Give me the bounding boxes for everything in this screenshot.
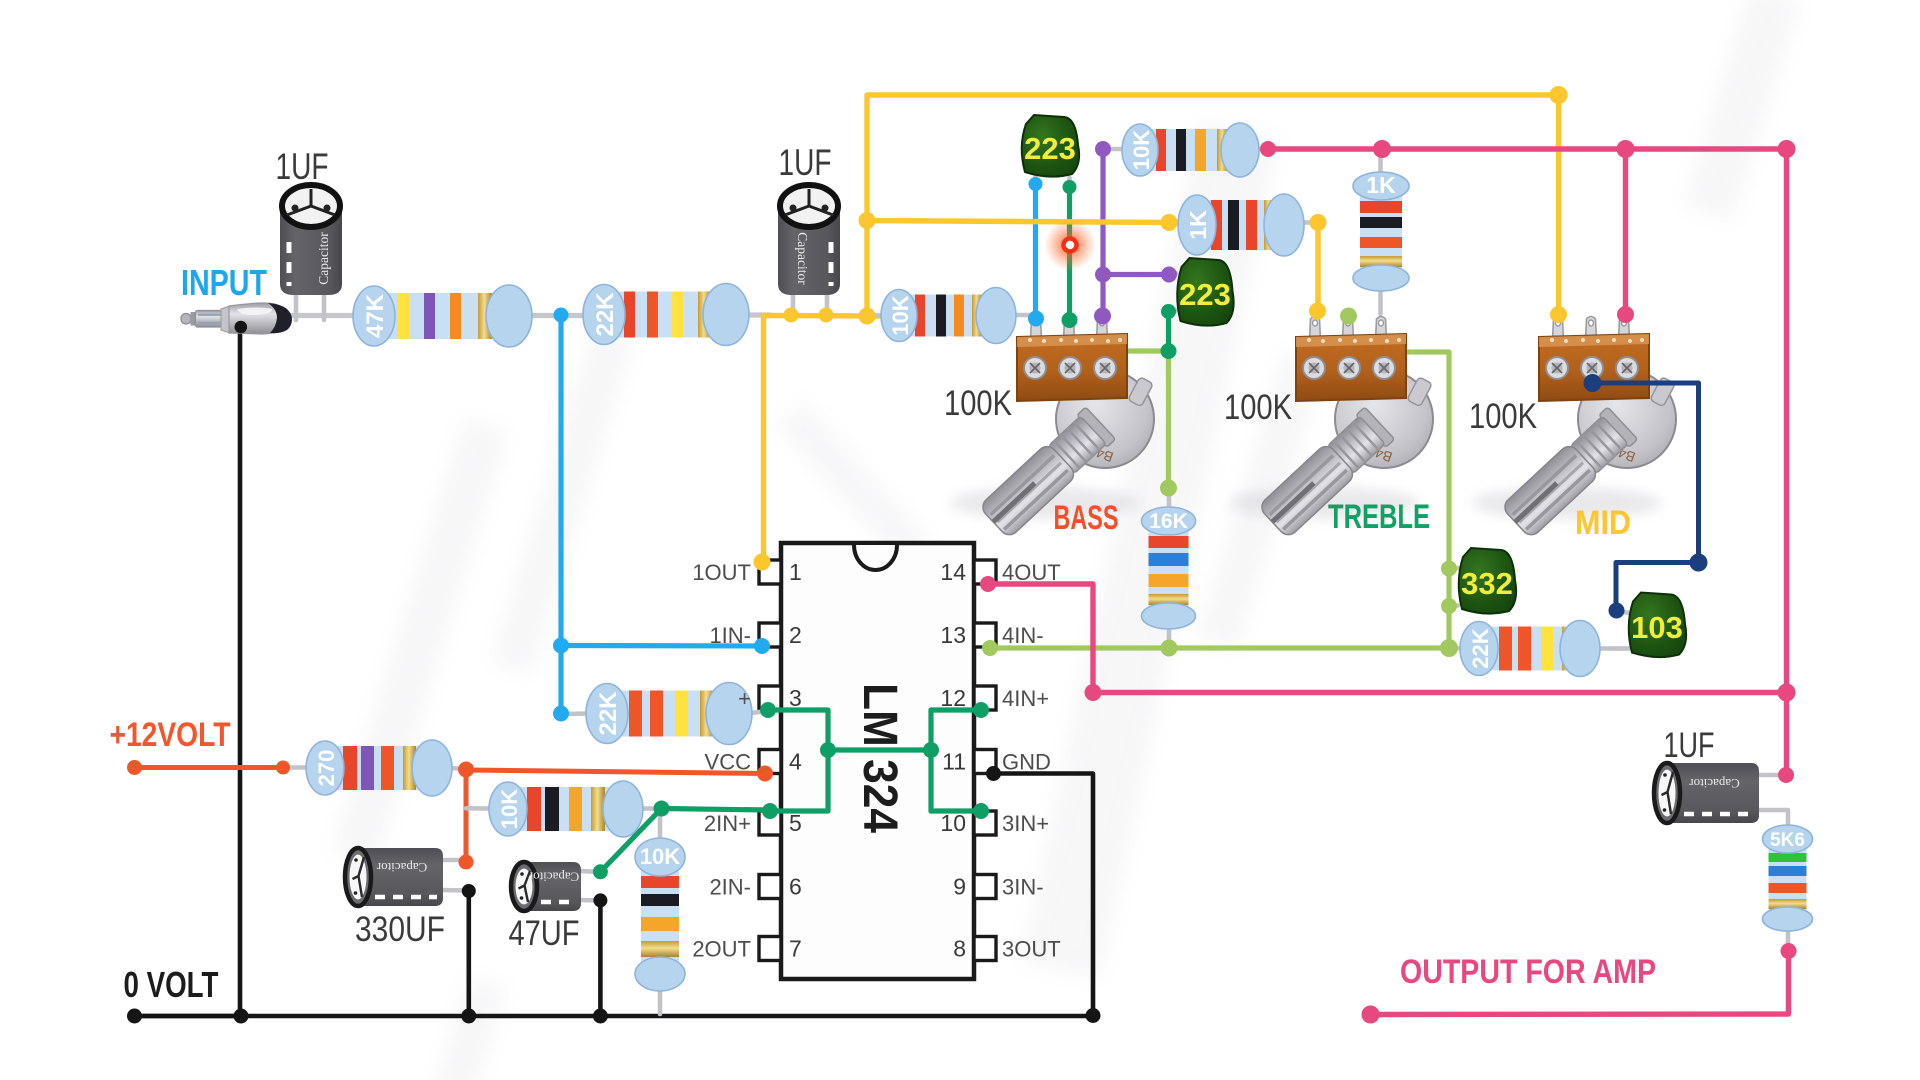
svg-text:10K: 10K bbox=[640, 844, 680, 869]
svg-text:1IN-: 1IN- bbox=[709, 623, 751, 648]
svg-text:2OUT: 2OUT bbox=[692, 937, 751, 962]
svg-text:4: 4 bbox=[789, 749, 802, 775]
capacitor C8 47UF bbox=[511, 862, 581, 911]
resistor R7 10K bbox=[489, 781, 643, 837]
resistor R3 10K bbox=[881, 288, 1016, 344]
svg-text:100K: 100K bbox=[944, 384, 1012, 423]
resistor R8 22K bbox=[586, 683, 752, 745]
svg-text:VCC: VCC bbox=[705, 750, 752, 775]
wire: cyan input to 1IN- bbox=[558, 315, 563, 713]
svg-text:4OUT: 4OUT bbox=[1002, 560, 1061, 585]
svg-text:3IN+: 3IN+ bbox=[1002, 811, 1049, 836]
svg-text:4IN-: 4IN- bbox=[1002, 623, 1044, 648]
node: GND pin 11 bbox=[986, 766, 1001, 781]
node: cyan junctions bbox=[554, 308, 569, 323]
svg-text:8: 8 bbox=[953, 936, 966, 962]
svg-text:1UF: 1UF bbox=[1664, 726, 1715, 765]
svg-text:Capacitor: Capacitor bbox=[376, 860, 427, 875]
capacitor C1 1UF bbox=[280, 185, 342, 295]
capacitor C5 332 bbox=[1459, 548, 1516, 614]
svg-text:10: 10 bbox=[940, 810, 966, 836]
svg-text:47K: 47K bbox=[362, 293, 389, 338]
svg-text:10K: 10K bbox=[888, 295, 913, 335]
resistor R1 47K bbox=[353, 285, 532, 347]
svg-text:BASS: BASS bbox=[1054, 499, 1119, 537]
svg-text:223: 223 bbox=[1024, 131, 1076, 166]
node: pink junctions bbox=[1260, 141, 1276, 157]
pin labels bbox=[692, 560, 1060, 962]
svg-text:14: 14 bbox=[940, 559, 966, 585]
svg-text:1: 1 bbox=[789, 559, 802, 585]
capacitor C2 1UF bbox=[778, 185, 840, 295]
svg-text:47UF: 47UF bbox=[509, 914, 580, 953]
node: purple junctions bbox=[1095, 141, 1111, 157]
node: +12V junctions bbox=[127, 760, 142, 775]
svg-text:+12VOLT: +12VOLT bbox=[110, 716, 231, 754]
svg-text:9: 9 bbox=[953, 874, 966, 900]
svg-text:3: 3 bbox=[789, 685, 802, 711]
node: teal junctions bbox=[1063, 180, 1077, 194]
leads bbox=[294, 283, 299, 320]
input jack J1 bbox=[181, 303, 292, 334]
svg-text:5K6: 5K6 bbox=[1770, 830, 1805, 851]
svg-text:+: + bbox=[738, 686, 751, 711]
svg-text:1K: 1K bbox=[1185, 210, 1211, 240]
svg-text:INPUT: INPUT bbox=[181, 262, 267, 303]
node: ground rail junctions bbox=[127, 1009, 142, 1024]
svg-text:0 VOLT: 0 VOLT bbox=[124, 964, 219, 1005]
node: highlight glow bbox=[1044, 219, 1096, 271]
svg-text:100K: 100K bbox=[1469, 397, 1537, 436]
wire: navy mid pot net bbox=[1593, 383, 1699, 609]
svg-text:2: 2 bbox=[789, 622, 802, 648]
svg-text:332: 332 bbox=[1461, 566, 1513, 601]
svg-text:2IN+: 2IN+ bbox=[704, 811, 751, 836]
wire: input signal gray bbox=[290, 313, 358, 318]
svg-text:GND: GND bbox=[1002, 750, 1051, 775]
capacitor C4 223 bbox=[1177, 258, 1233, 326]
potentiometer VR2 TREBLE 100K bbox=[1229, 317, 1433, 539]
svg-text:10K: 10K bbox=[1129, 130, 1154, 170]
wire: pink output net bbox=[1268, 149, 1787, 775]
svg-text:330UF: 330UF bbox=[355, 910, 445, 949]
capacitor C9 1UF output bbox=[1654, 763, 1759, 823]
wire: teal op-amp bridge bbox=[768, 710, 828, 811]
svg-text:3OUT: 3OUT bbox=[1002, 937, 1061, 962]
svg-text:223: 223 bbox=[1179, 277, 1231, 312]
resistor R12 10K vertical bbox=[635, 838, 685, 991]
node: jack ground bbox=[235, 321, 248, 334]
svg-text:22K: 22K bbox=[595, 691, 622, 736]
svg-text:TREBLE: TREBLE bbox=[1328, 498, 1430, 536]
svg-text:Capacitor: Capacitor bbox=[795, 232, 810, 285]
pin numbers bbox=[789, 559, 966, 962]
svg-text:11: 11 bbox=[942, 749, 966, 775]
svg-text:1UF: 1UF bbox=[779, 142, 832, 183]
svg-text:7: 7 bbox=[789, 936, 802, 962]
svg-text:Capacitor: Capacitor bbox=[1689, 776, 1740, 791]
node: navy junctions bbox=[1584, 374, 1602, 392]
svg-text:1UF: 1UF bbox=[276, 146, 329, 187]
svg-text:10K: 10K bbox=[497, 789, 522, 829]
resistor R4 10K bbox=[1122, 123, 1259, 177]
svg-text:2IN-: 2IN- bbox=[709, 875, 751, 900]
op-amp U1 LM324 bbox=[759, 543, 996, 979]
svg-text:LM 324: LM 324 bbox=[853, 683, 906, 833]
wire: ground net black bbox=[135, 328, 241, 1016]
node: light green junctions bbox=[982, 640, 998, 656]
svg-text:270: 270 bbox=[314, 750, 339, 787]
resistor R9 22K bbox=[1460, 621, 1600, 677]
svg-text:MID: MID bbox=[1575, 504, 1631, 542]
node: yellow junctions bbox=[784, 308, 799, 323]
svg-text:5: 5 bbox=[789, 810, 802, 836]
svg-text:16K: 16K bbox=[1149, 510, 1188, 533]
resistor R11 16K vertical bbox=[1142, 507, 1196, 629]
wire: light green treble net bbox=[990, 645, 1449, 650]
svg-text:100K: 100K bbox=[1224, 388, 1292, 427]
wire: purple net bbox=[1100, 149, 1105, 314]
svg-text:1OUT: 1OUT bbox=[692, 560, 751, 585]
svg-text:3IN-: 3IN- bbox=[1002, 875, 1044, 900]
svg-text:6: 6 bbox=[789, 874, 802, 900]
resistor R13 5K6 vertical bbox=[1763, 825, 1813, 931]
potentiometer VR1 BASS 100K bbox=[950, 317, 1154, 539]
potentiometer VR3 MID 100K bbox=[1472, 317, 1676, 539]
capacitor C3 223 bbox=[1022, 115, 1079, 177]
capacitor C7 330UF bbox=[345, 848, 443, 906]
svg-text:22K: 22K bbox=[592, 292, 619, 337]
wire: teal 223-2 stub bbox=[1166, 312, 1171, 352]
wire: +12V orange net bbox=[135, 765, 285, 770]
resistor R6 270 bbox=[306, 740, 452, 796]
svg-text:OUTPUT FOR AMP: OUTPUT FOR AMP bbox=[1400, 953, 1656, 991]
svg-text:13: 13 bbox=[940, 622, 966, 648]
svg-text:Capacitor: Capacitor bbox=[316, 232, 331, 285]
svg-text:103: 103 bbox=[1631, 610, 1683, 645]
svg-text:Capacitor: Capacitor bbox=[528, 870, 579, 885]
svg-text:22K: 22K bbox=[1468, 628, 1493, 668]
wire: teal 223 to bass pot bbox=[1067, 186, 1072, 318]
capacitor C6 103 bbox=[1629, 593, 1686, 658]
wire: yellow feedback net bbox=[766, 313, 886, 319]
svg-text:4IN+: 4IN+ bbox=[1002, 686, 1049, 711]
resistor R10 1K vertical bbox=[1353, 172, 1409, 291]
svg-text:1K: 1K bbox=[1366, 172, 1396, 198]
resistor R5 1K bbox=[1178, 194, 1304, 256]
resistor R2 22K bbox=[583, 284, 749, 346]
svg-text:12: 12 bbox=[940, 685, 966, 711]
